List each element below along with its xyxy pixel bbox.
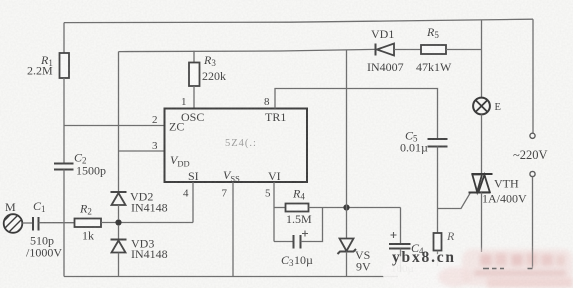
label 1A/400V xyxy=(482,192,527,206)
label pin 2 xyxy=(152,114,158,126)
label 1k xyxy=(82,229,94,243)
wire lamp to triac xyxy=(481,114,483,174)
wire pin 2 (ZC) horizontal to IC xyxy=(64,125,165,127)
wire VDD rail (y50) from VDD column to VD1 xyxy=(119,49,376,51)
label VSS xyxy=(223,168,240,184)
label VS xyxy=(355,248,370,262)
node junction VD2/VD3/R2 xyxy=(115,219,121,225)
wire ground rail xyxy=(64,276,398,278)
label 220k xyxy=(202,69,226,83)
label R4 xyxy=(292,187,305,202)
label VD1 xyxy=(371,27,394,41)
wire VS node down to zener xyxy=(346,208,348,239)
wire pin 7 down to ground rail xyxy=(232,182,234,277)
label C2 xyxy=(74,151,87,166)
wire triac down toward ground rail xyxy=(481,193,483,253)
wire C2 bottom down to ground rail xyxy=(63,170,65,277)
label VDD xyxy=(170,153,190,169)
wire gate node down to R6 xyxy=(437,209,439,234)
capacitor C5 xyxy=(428,139,448,147)
terminal lower mains xyxy=(530,171,535,176)
wire R2 to pin4 corner xyxy=(101,222,193,224)
label 0.01u xyxy=(400,141,428,155)
label pin 5 xyxy=(265,188,271,200)
label R5 xyxy=(426,25,439,40)
label pin 4 xyxy=(183,188,189,200)
label R6 xyxy=(446,229,455,243)
wire R6 bottom lead xyxy=(437,251,439,267)
label ~220V xyxy=(513,148,548,162)
wire y50 rail down to VS node xyxy=(346,50,348,208)
capacitor C4 xyxy=(389,208,411,273)
watermark ybx8.cn xyxy=(392,249,456,266)
capacitor C1 xyxy=(33,217,39,231)
resistor R2 xyxy=(75,219,102,228)
label ZC xyxy=(169,120,184,134)
wire lower terminal lead overlay xyxy=(532,248,534,267)
wire gate node to triac gate xyxy=(438,193,471,208)
label 1.5M xyxy=(286,212,312,226)
microphone M xyxy=(1,211,29,241)
wire R4 right lead to C4 corner xyxy=(309,207,401,209)
wire VDD column down to pin3 and VD2 xyxy=(118,52,120,192)
capacitor C2 xyxy=(54,164,74,170)
label VD2 xyxy=(130,190,153,204)
diode VD1 xyxy=(376,44,395,56)
label pin 3 xyxy=(152,140,158,152)
wire C2 column upper (pin2 node down to C2) xyxy=(63,126,65,164)
label C3 xyxy=(281,253,294,268)
wire R4 left lead xyxy=(274,207,286,209)
diode VD2 xyxy=(111,192,127,220)
wire C5 bottom down to gate node xyxy=(437,147,439,209)
label C1 xyxy=(33,199,46,214)
wire pin 4 up to IC xyxy=(192,182,194,223)
wire VD1 to R5 xyxy=(394,49,421,51)
label R1 xyxy=(40,53,53,68)
IC faint center marking xyxy=(225,138,257,149)
IC U1 box xyxy=(165,109,308,183)
wire ground rail dashes overlay xyxy=(483,268,533,270)
resistor R4 xyxy=(286,204,309,212)
label VI xyxy=(268,169,281,183)
label C4 xyxy=(411,241,424,256)
capacitor C3 xyxy=(274,208,323,249)
label OSC xyxy=(181,110,204,124)
label 47k1W xyxy=(416,60,452,74)
label pin 8 xyxy=(264,96,270,108)
wire lamp column from top rail to lamp xyxy=(481,20,483,98)
label 2.2M xyxy=(27,64,53,78)
wire lower terminal down to ground rail xyxy=(532,177,534,268)
label M xyxy=(5,200,16,214)
lamp E xyxy=(473,98,490,115)
resistor R3 xyxy=(189,63,200,87)
label pin 1 xyxy=(181,96,187,108)
wire R3 top lead from y50 rail xyxy=(193,51,195,63)
diode VD3 xyxy=(111,225,127,277)
label pin 7 xyxy=(222,188,228,200)
resistor R1 xyxy=(60,53,70,78)
label /1000V xyxy=(26,246,62,260)
label VTH xyxy=(494,177,519,191)
wire right column down to upper mains terminal xyxy=(532,19,534,133)
label 9V xyxy=(356,260,371,274)
label VD3 xyxy=(131,237,154,251)
label R3 xyxy=(203,53,216,68)
terminal upper mains xyxy=(530,133,535,138)
label C4 value faint xyxy=(391,263,414,275)
wire C1 to R2 xyxy=(39,222,75,224)
label R2 xyxy=(79,202,92,217)
label IN4148 lower xyxy=(131,247,168,261)
label TR1 xyxy=(265,110,286,124)
label 10u xyxy=(294,253,313,267)
wire ground rail dashes right xyxy=(483,268,533,270)
wire top supply rail from R1 top to right column xyxy=(64,19,533,22)
wire R5 to lamp column xyxy=(446,49,482,51)
label IN4148 upper xyxy=(131,201,168,215)
wire pin 5 down xyxy=(273,182,275,242)
wire pin 3 (VDD) horizontal to IC xyxy=(119,150,165,152)
wire mic to C1 xyxy=(22,222,33,224)
label 1500p xyxy=(76,164,106,178)
triac VTH xyxy=(469,174,493,193)
resistor R6 xyxy=(434,233,442,251)
label C5 xyxy=(405,129,418,144)
wire R1 bottom lead down to pin2 node xyxy=(63,78,65,126)
wire R1 top lead xyxy=(63,23,65,53)
label C3 plus sign xyxy=(302,231,308,237)
label C4 plus sign xyxy=(391,232,397,238)
label IN4007 xyxy=(367,60,404,74)
label SI xyxy=(188,169,199,183)
label 510p xyxy=(30,234,54,248)
node junction VS/R4 xyxy=(343,204,349,210)
watermark red logo area xyxy=(438,249,573,288)
resistor R5 xyxy=(421,45,446,54)
wire R3 bottom lead pin 1 to IC top xyxy=(193,86,195,109)
wire pin 8 up and across to C5 column xyxy=(275,89,438,140)
label E xyxy=(495,102,501,113)
watermark white blob xyxy=(382,253,466,288)
zener diode VS xyxy=(338,239,357,277)
